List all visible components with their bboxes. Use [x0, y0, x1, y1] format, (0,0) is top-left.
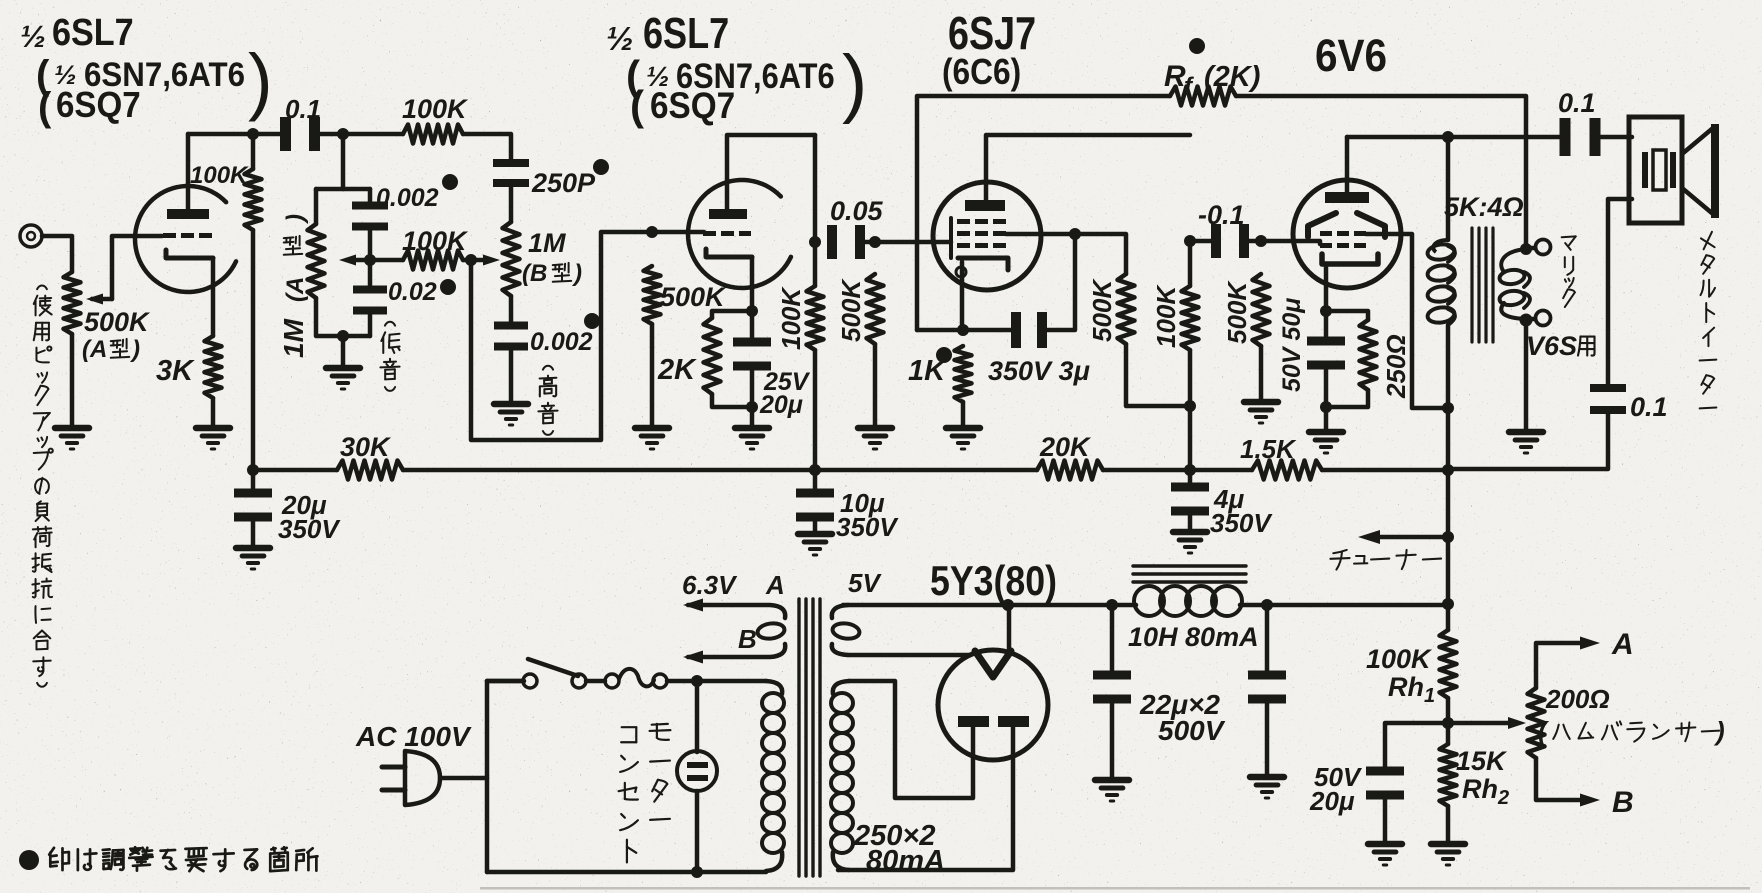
label tube V3 6SJ7 — [948, 7, 1036, 58]
svg-text:500K: 500K — [660, 282, 727, 312]
HV winding 250x2 — [831, 681, 853, 870]
label 250Ω rotated — [1381, 334, 1411, 399]
input jack J1 — [20, 225, 42, 247]
svg-text:5V: 5V — [848, 568, 882, 598]
V5 plate right lead — [838, 727, 1013, 870]
svg-text:350V: 350V — [1210, 508, 1273, 538]
label 2K — [657, 354, 697, 386]
svg-text:20μ: 20μ — [759, 391, 803, 419]
capacitor 50V 20μ — [1366, 723, 1448, 842]
resistor 3K cathode V1 — [205, 336, 222, 398]
label チューナー — [1330, 550, 1441, 570]
svg-text:1M: 1M — [528, 228, 566, 258]
wire 500K to ground — [650, 324, 655, 426]
scan artifact bottom edge — [480, 887, 1750, 890]
adjust dot near 1K — [936, 347, 952, 363]
label 低音 (bass) — [380, 322, 399, 391]
wire 0.002 to ground bar — [509, 349, 514, 402]
power transformer core — [799, 599, 820, 876]
label 15K Rh2 — [1456, 746, 1509, 809]
triode V1 1/2 6SL7 envelope — [135, 186, 236, 292]
resistor 1.5K decoupling — [1252, 461, 1322, 480]
label A — [1611, 628, 1634, 661]
speaker magnet detail — [1642, 150, 1676, 190]
V4 grid dashes row2 — [1320, 243, 1366, 248]
adjust dot near Rf — [1189, 38, 1205, 54]
wire B+ rail left segment — [253, 468, 337, 473]
label 6.3V A — [682, 570, 785, 600]
label 0.002 treble — [530, 328, 593, 356]
ground below 22μ output — [1250, 777, 1284, 798]
wire wiper node to 100K — [370, 258, 471, 263]
V3 cathode lead — [960, 262, 965, 330]
triode V2 1/2 6SL7 envelope — [688, 180, 791, 288]
wire V1 plate top rail — [188, 132, 283, 137]
wire 250P to 1M-B pot — [509, 185, 514, 222]
node V4 cathode bottom — [1320, 401, 1332, 413]
node OPT primary bottom / screen feed — [1442, 402, 1454, 414]
ground below 20μ — [236, 548, 270, 569]
fuse F — [586, 669, 766, 688]
svg-text:2K: 2K — [657, 354, 697, 386]
V4 cathode — [1322, 254, 1378, 264]
label 高音 (treble) — [538, 366, 557, 435]
node V2 grid — [646, 226, 658, 238]
wire secondary to ground — [1524, 320, 1529, 430]
ground below secondary — [1509, 432, 1543, 453]
wiper arrow into 1M-A — [339, 255, 370, 266]
wire to hum balancer — [1448, 721, 1508, 726]
node V3 screen — [1069, 228, 1081, 240]
ground below VR1 — [55, 428, 89, 449]
svg-text:B: B — [738, 624, 757, 654]
capacitor 0.002 treble — [494, 322, 528, 351]
wire 0.002 to wiper node — [368, 229, 373, 289]
svg-text:R: R — [1164, 60, 1186, 93]
label pickup note (使用ピックアップの負荷抵抗に合す) — [32, 285, 52, 686]
svg-text:6SL7: 6SL7 — [52, 10, 134, 53]
label 1M (B型) — [522, 228, 582, 287]
svg-text:100K: 100K — [402, 226, 469, 256]
node divider top — [1442, 598, 1454, 610]
V4 beam plates — [1308, 213, 1385, 237]
note adjustment legend — [19, 847, 317, 871]
adjust dot near 0.002 bass — [442, 174, 458, 190]
node rectifier output — [1002, 599, 1014, 611]
V4 screen lead to transformer bottom — [1366, 234, 1448, 408]
label 200Ω (ハムバランサー) — [1538, 684, 1725, 746]
resistor 1K cathode V3 — [955, 346, 972, 402]
wire hum balancer to A — [1536, 643, 1582, 688]
node B+ rail right end — [1442, 464, 1454, 476]
svg-text:(A: (A — [282, 277, 309, 302]
svg-text:100K: 100K — [1366, 644, 1433, 674]
V3 grid bracket and entry — [933, 218, 951, 258]
arrow 6.3V B — [683, 651, 703, 664]
pentode V3 6SJ7 envelope — [933, 182, 1041, 290]
label 500K grid V4 rotated — [1222, 280, 1252, 344]
wire 0.05 to V3 grid — [861, 240, 933, 245]
wire 100K to 250P — [463, 134, 511, 163]
ground below 4μ — [1173, 532, 1207, 553]
label 100K plate load V1 — [190, 162, 249, 189]
node V2 plate coupling — [809, 236, 821, 248]
svg-text:350V: 350V — [278, 514, 341, 544]
ground below tone network — [326, 368, 360, 389]
V4 plate lead — [1345, 137, 1350, 192]
V3 screen lead — [1006, 232, 1075, 237]
ground below 22μ input — [1095, 780, 1129, 801]
ground below Rh2 — [1431, 844, 1465, 865]
V3 grid dashes row3 — [957, 243, 1006, 248]
secondary terminal top — [1526, 240, 1551, 255]
wire 1M-A to bottom — [316, 298, 370, 336]
V5 filament V — [975, 651, 1011, 677]
svg-text:(B: (B — [522, 260, 547, 287]
wire OPT bottom to B+ rail — [1446, 408, 1451, 604]
label 3K — [156, 355, 195, 387]
V2 plate — [709, 209, 747, 219]
svg-text:Rh: Rh — [1462, 774, 1498, 804]
node outlet tap top — [691, 675, 703, 687]
resistor 15K Rh2 — [1440, 744, 1457, 842]
svg-text:350V 3μ: 350V 3μ — [988, 356, 1090, 386]
wire screen to 500K — [1075, 234, 1126, 274]
ground below 50V 20μ — [1368, 844, 1402, 865]
label V6S用 — [1526, 331, 1595, 361]
potentiometer 1M (A型) bass — [308, 224, 325, 298]
node B+ V2 — [809, 464, 821, 476]
svg-text:100K: 100K — [776, 286, 806, 350]
svg-text:1M: 1M — [278, 318, 309, 358]
wire left branch to 1M-A — [314, 189, 319, 224]
wire B+ rail right segment — [1322, 468, 1448, 473]
svg-text:50V 50μ: 50V 50μ — [1278, 298, 1306, 392]
V5 plate right — [998, 716, 1029, 727]
svg-text:6.3V: 6.3V — [682, 570, 738, 600]
node V2 cathode — [746, 305, 758, 317]
svg-text:250Ω: 250Ω — [1381, 334, 1411, 399]
arrow A — [1580, 637, 1600, 650]
label 50V 20μ — [1309, 762, 1363, 816]
capacitor -0.1 coupling — [1190, 224, 1320, 258]
label 0.02 — [388, 278, 437, 306]
label 100K Rh1 — [1366, 644, 1435, 707]
label 500K (A型) — [82, 307, 151, 363]
resistor 500K screen V3 — [1118, 274, 1135, 344]
label 10H 80mA — [1128, 622, 1259, 652]
wire 3K to ground — [211, 398, 216, 426]
ground below 500K V4 — [1244, 402, 1278, 423]
label 100K plate V3 rotated — [1151, 284, 1181, 348]
resistor 500K grid V3 — [867, 274, 884, 344]
svg-text:): ) — [248, 39, 273, 122]
svg-text:(6C6): (6C6) — [942, 52, 1021, 92]
svg-text:(A: (A — [82, 336, 107, 363]
label 30K — [340, 432, 392, 462]
node V2 cathode ground — [746, 401, 758, 413]
svg-text:6SQ7: 6SQ7 — [56, 86, 141, 126]
wire 2K bottom — [712, 394, 752, 407]
svg-text:): ) — [842, 40, 867, 125]
label -0.1 — [1198, 200, 1245, 230]
node grid feed junction — [465, 254, 477, 266]
resistor 500K grid V4 — [1253, 274, 1270, 346]
svg-text:1.5K: 1.5K — [1240, 434, 1297, 464]
wire tone bottom to ground — [341, 336, 346, 366]
node choke input — [1106, 599, 1118, 611]
wire tuner tap — [1372, 535, 1448, 540]
wire top to 0.002 bass cap — [368, 189, 373, 205]
capacitor 0.1 tweeter bottom — [1590, 384, 1626, 414]
label 0.002 bass — [376, 184, 439, 212]
wire VR1 wiper to V1 grid — [112, 236, 162, 299]
label 100K plate V2 rotated — [776, 286, 806, 350]
ground below 500K V3 — [858, 428, 892, 449]
svg-text:350V: 350V — [836, 512, 899, 542]
label 250P — [531, 168, 596, 198]
potentiometer 1M (B型) treble — [503, 222, 520, 296]
resistor 2K cathode V2 — [704, 318, 721, 394]
label 350V 3μ — [988, 356, 1090, 386]
svg-text:A: A — [1611, 628, 1634, 661]
motor outlet コンセント — [677, 681, 717, 872]
wire 1K to ground — [961, 402, 966, 426]
label B — [1612, 786, 1634, 819]
arrow 6.3V A — [683, 599, 703, 612]
wire B+ rail mid segment — [403, 468, 1037, 473]
resistor 100K plate load V2 — [807, 135, 824, 470]
svg-text:500K: 500K — [1087, 278, 1117, 342]
label マリック — [1562, 236, 1576, 307]
wire bypass to ground — [750, 368, 755, 406]
label 4μ 350V — [1210, 484, 1273, 538]
wiper arrow VR1 — [86, 294, 112, 305]
arrow B — [1580, 794, 1600, 807]
wire 500K screen to B+ — [1126, 344, 1190, 406]
node bass wiper junction — [364, 254, 376, 266]
label 0.1 bottom — [1630, 392, 1668, 422]
V1 plate — [167, 209, 209, 219]
node V3 plate — [1184, 235, 1196, 247]
svg-text:100K: 100K — [190, 162, 249, 189]
V2 plate lead — [727, 135, 815, 209]
svg-text:200Ω: 200Ω — [1545, 684, 1610, 714]
V5 filament lead to B+ — [1007, 605, 1012, 651]
capacitor 50V 50μ cathode bypass — [1307, 311, 1345, 407]
wire primary bottom — [487, 870, 766, 875]
wire node A down to tone branch — [316, 134, 370, 189]
svg-text:6SQ7: 6SQ7 — [650, 85, 735, 126]
node tone network top — [337, 128, 349, 140]
wiper arrow into 1M-B — [471, 255, 500, 266]
wire 0.02 to bottom — [368, 313, 373, 336]
svg-text:30K: 30K — [340, 432, 392, 462]
capacitor 25V 20u bypass — [733, 311, 771, 371]
V4 grid dashes row1 — [1320, 231, 1366, 236]
output transformer OPT primary 5K — [1427, 137, 1456, 408]
wire 100K load to B+ rail — [251, 134, 256, 470]
wire plug to primary loop — [440, 681, 524, 872]
capacitor 350V 3μ screen bypass — [963, 234, 1075, 348]
speaker horn — [1682, 124, 1719, 218]
svg-text:V6S: V6S — [1526, 331, 1577, 361]
label 250×2 80mA — [853, 820, 945, 877]
resistor Rf 2K feedback — [1170, 87, 1236, 106]
ground below 0.002 treble — [494, 404, 528, 425]
ground below 3K — [196, 428, 230, 449]
label tube V1 1/2 6SL7 — [20, 10, 134, 54]
svg-text:10H 80mA: 10H 80mA — [1128, 622, 1259, 652]
wire 0.1 to node A — [315, 132, 403, 137]
capacitor 20μ 350V filter — [234, 470, 272, 546]
OPT secondary 4Ω winding — [1499, 243, 1533, 327]
svg-text:250P: 250P — [531, 168, 596, 198]
label 100K top — [402, 94, 469, 124]
adjust dot near 250P — [593, 159, 609, 175]
svg-text:6SL7: 6SL7 — [643, 9, 729, 58]
V1 plate lead — [186, 134, 191, 209]
label 1M (A型) rotated — [278, 214, 309, 358]
node B+ V1 — [247, 464, 259, 476]
V1 cathode — [166, 250, 213, 258]
V3 cathode — [956, 258, 1008, 277]
wire hum balancer to B — [1536, 758, 1582, 800]
V5 plate left — [958, 716, 989, 727]
ground below 1K — [946, 428, 980, 449]
resistor 100K plate load V3 — [1182, 241, 1199, 470]
label 0.1 top — [1558, 88, 1596, 118]
svg-text:500K: 500K — [1222, 280, 1252, 344]
capacitor 0.05 coupling — [827, 225, 865, 259]
capacitor 22μ output filter — [1248, 605, 1286, 775]
filter choke 10H 80mA — [1134, 586, 1448, 616]
label 1.5K — [1240, 434, 1297, 464]
V4 cathode lead — [1324, 264, 1329, 311]
OPT core — [1472, 228, 1493, 342]
wire V4 plate to OPT — [1347, 135, 1566, 140]
node divider mid — [1442, 717, 1454, 729]
wire 500K V4 to ground — [1259, 346, 1264, 400]
node V1 plate load junction — [247, 128, 259, 140]
svg-text:500K: 500K — [836, 278, 866, 342]
label 10μ 350V — [836, 488, 899, 542]
switch SW — [523, 659, 586, 688]
node V3 grid — [869, 236, 881, 248]
svg-text:20K: 20K — [1039, 432, 1092, 462]
beam tetrode V4 6V6 envelope — [1293, 180, 1401, 288]
svg-text:0.1: 0.1 — [1558, 88, 1596, 118]
svg-text:(: ( — [38, 85, 52, 129]
label 20K — [1039, 432, 1092, 462]
resistor 100K Rh1 — [1440, 604, 1457, 744]
label 20μ 350V — [278, 490, 341, 544]
label Rf (2K) — [1164, 60, 1260, 100]
choke core — [1133, 566, 1246, 582]
label tube V5 5Y3(80) — [930, 558, 1057, 604]
svg-text:15K: 15K — [1456, 746, 1508, 776]
svg-text:500V: 500V — [1158, 715, 1226, 746]
V1 cathode lead — [211, 258, 216, 336]
svg-text:0.05: 0.05 — [830, 196, 884, 226]
heater winding 6.3V — [688, 605, 785, 657]
V3 grid dashes row2 screen — [957, 231, 1006, 236]
V5 plate left lead — [849, 681, 973, 798]
label B — [738, 624, 757, 654]
svg-text:A: A — [765, 570, 785, 600]
wire 1M-B to 0.002 — [509, 296, 514, 325]
node choke output — [1261, 599, 1273, 611]
speaker tweeter box — [1629, 117, 1682, 223]
label 1K — [908, 355, 947, 387]
node outlet tap bottom — [691, 866, 703, 878]
node B+ V3 — [1184, 464, 1196, 476]
label メタルトイーター — [1700, 232, 1717, 409]
V3 plate — [965, 200, 1005, 211]
wire 0.1 to speaker — [1596, 135, 1632, 140]
svg-text:B: B — [1612, 786, 1634, 819]
svg-text:1: 1 — [1424, 685, 1435, 707]
svg-text:100K: 100K — [402, 94, 469, 124]
node V4 cathode — [1320, 305, 1332, 317]
wire 0.1 bottom to rail — [1448, 410, 1608, 469]
V3 grid dashes row1 — [957, 219, 1006, 224]
svg-text:5Y3(80): 5Y3(80) — [930, 558, 1057, 604]
svg-text:0.02: 0.02 — [388, 278, 437, 306]
ground below V2 cathode — [735, 428, 769, 449]
svg-text:500K: 500K — [84, 307, 151, 337]
label 5K:4Ω — [1444, 192, 1524, 222]
label 500K grid V3 rotated — [836, 278, 866, 342]
capacitor 10μ 350V filter — [796, 470, 834, 532]
resistor 20K decoupling — [1037, 461, 1103, 480]
resistor 30K decoupling — [337, 461, 403, 480]
label V1 alternates (1/2 6SN7,6AT6 / 6SQ7) — [36, 39, 273, 129]
label V3 alternate (6C6) — [942, 52, 1021, 92]
label tube V2 1/2 6SL7 — [606, 9, 729, 58]
svg-text:0.1: 0.1 — [285, 94, 321, 124]
adjust dot near 0.002 treble — [584, 313, 600, 329]
svg-text:0.002: 0.002 — [376, 184, 439, 212]
capacitor 0.02 bass bottom — [353, 286, 387, 315]
V2 cathode lead — [750, 257, 755, 311]
resistor 250Ω cathode V4 — [1326, 311, 1377, 407]
V4 plate — [1325, 192, 1369, 203]
rectifier V5 5Y3 envelope — [938, 650, 1048, 760]
label 25V 20μ — [759, 368, 811, 419]
capacitor 0.1 tweeter top — [1560, 118, 1601, 156]
wire 500K V3 to ground — [873, 344, 878, 426]
svg-text:3K: 3K — [156, 355, 195, 387]
rectifier winding 5V — [832, 605, 969, 655]
adjust dot near 0.02 — [440, 279, 456, 295]
node V4 grid — [1255, 235, 1267, 247]
node V3 cathode — [957, 324, 969, 336]
label 5V — [848, 568, 882, 598]
node tuner tap — [1442, 531, 1454, 543]
wire speaker return — [1608, 199, 1632, 388]
capacitor 22μ input filter — [1093, 605, 1131, 778]
capacitor 4μ 350V filter — [1171, 470, 1209, 530]
wire to 2K — [712, 311, 752, 318]
wire to ground — [1324, 407, 1329, 430]
AC plug — [382, 751, 440, 805]
svg-text:20μ: 20μ — [1309, 786, 1355, 816]
svg-text:5K:4Ω: 5K:4Ω — [1444, 192, 1524, 222]
resistor 100K top — [403, 125, 463, 144]
arrow to tuner — [1358, 530, 1380, 544]
label 0.05 — [830, 196, 884, 226]
